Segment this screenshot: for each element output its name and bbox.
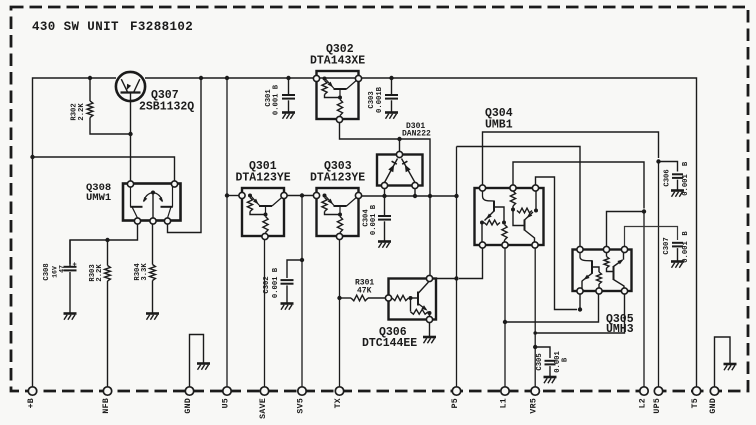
ground (GND right hook) <box>724 364 737 370</box>
svg-text:+B: +B <box>27 398 36 408</box>
wire D301 pin drops <box>385 189 416 197</box>
wire TX line <box>337 240 341 391</box>
wire P5 to Q305 (y=146.5) <box>457 147 581 247</box>
terminal GND <box>709 387 719 414</box>
terminal GND <box>184 387 194 414</box>
svg-text:UMB1: UMB1 <box>485 119 513 132</box>
wire C306 stub <box>659 162 678 172</box>
resistor R302 <box>71 78 131 134</box>
wire bus Q303 to P5 (y=196) <box>362 194 459 198</box>
terminal T5 <box>691 387 701 409</box>
wire SV5 line <box>300 196 304 392</box>
svg-text:430 SW UNIT: 430 SW UNIT <box>32 20 119 34</box>
svg-text:GND: GND <box>709 398 718 414</box>
terminal TX <box>334 387 344 409</box>
dual diode D301 <box>377 122 431 189</box>
svg-text:T5: T5 <box>691 398 700 408</box>
wire D301 anode lead <box>399 139 401 152</box>
wire U5 to Q301 <box>227 195 239 197</box>
svg-text:0.001 B: 0.001 B <box>370 204 378 235</box>
digital transistor Q303 <box>310 160 365 240</box>
terminal VR5 <box>530 387 540 414</box>
wire C305 stub <box>535 347 550 358</box>
svg-text:0.001 B: 0.001 B <box>273 84 281 115</box>
wire L1 to Q305 pin5 (y=322) <box>505 294 599 322</box>
svg-text:B: B <box>562 357 570 362</box>
digital transistor Q301 <box>236 160 291 240</box>
digital transistor Q306 <box>362 275 436 350</box>
svg-text:TX: TX <box>334 398 343 408</box>
svg-text:UMH3: UMH3 <box>606 323 634 336</box>
capacitor C305 <box>536 351 570 377</box>
wire Q306 emitter to ground <box>429 323 431 337</box>
svg-text:16V: 16V <box>52 266 59 278</box>
svg-text:DTA123YE: DTA123YE <box>236 172 291 185</box>
svg-text:L1: L1 <box>500 398 509 408</box>
svg-text:C308: C308 <box>43 263 51 280</box>
ground (C302) <box>281 304 294 310</box>
ground (R304) <box>146 314 159 320</box>
capacitor C303 <box>368 78 398 113</box>
resistor R303 <box>89 240 110 391</box>
wire Q304 pin1 top to UP5 (y=132) <box>483 132 659 185</box>
terminal +B <box>27 387 37 409</box>
wire GND left hook <box>190 335 204 392</box>
wire Q305 pin4 drop <box>579 294 581 310</box>
wire Q304 pin2 top to L2 (y=162) <box>513 162 644 209</box>
wire +B rail (y=78) <box>33 76 697 391</box>
svg-text:3.3K: 3.3K <box>141 263 149 281</box>
svg-text:DTA123YE: DTA123YE <box>310 172 365 185</box>
svg-text:F3288102: F3288102 <box>130 20 193 34</box>
svg-text:U5: U5 <box>222 398 231 408</box>
wire R301 link TX to Q306 <box>340 297 386 299</box>
capacitor C304 <box>363 196 392 242</box>
digital transistor Q302 <box>310 43 365 123</box>
svg-text:DAN222: DAN222 <box>402 130 431 139</box>
wire Q301-Q303 link <box>286 193 314 197</box>
svg-text:2SB1132Q: 2SB1132Q <box>139 101 194 114</box>
wire VR5 line <box>533 248 537 391</box>
wire Q307 base to Q308 pin <box>128 101 132 181</box>
terminal L1 <box>500 387 510 409</box>
svg-text:VR5: VR5 <box>530 398 539 414</box>
svg-text:NFB: NFB <box>102 398 111 414</box>
ground (Q306) <box>423 337 436 343</box>
svg-text:C305: C305 <box>536 353 544 370</box>
svg-text:C303: C303 <box>368 91 376 108</box>
svg-text:B: B <box>682 231 690 236</box>
wire Q305 pin6 to VR5 (y=333) <box>533 294 624 335</box>
terminal SV5 <box>297 387 307 414</box>
terminal UP5 <box>653 387 663 414</box>
wire GND right hook <box>715 337 731 391</box>
resistor R304 <box>134 224 155 314</box>
capacitor C308 <box>43 240 77 314</box>
wire L2 line <box>642 209 646 391</box>
svg-text:0.001 B: 0.001 B <box>272 267 280 298</box>
ground (C301) <box>282 113 295 119</box>
svg-text:47K: 47K <box>357 287 372 296</box>
wire UP5 line <box>656 159 660 391</box>
wire +B branch to Q308 (y=157) <box>30 155 174 181</box>
dual digital transistor Q305 <box>573 246 634 336</box>
ground (C305) <box>544 377 557 383</box>
svg-text:0.001: 0.001 <box>682 174 690 196</box>
terminal U5 <box>222 387 232 409</box>
svg-text:SAVE: SAVE <box>259 398 268 419</box>
svg-text:+: + <box>73 262 77 270</box>
wire U5 line <box>225 78 229 391</box>
ground (C308) <box>64 314 77 320</box>
wire Q308 pin1 bus (y=240) <box>70 224 138 264</box>
wire Q305 pin2 to L2 node (y=211.5) <box>607 212 645 247</box>
wire Q305 pin3 to C307 (y=226.5) <box>625 227 678 247</box>
svg-text:P5: P5 <box>451 398 460 408</box>
ground (C304) <box>378 242 391 248</box>
capacitor C306 <box>664 161 691 196</box>
svg-text:0.001: 0.001 <box>682 241 690 263</box>
wire Q304 pin3 loop to Q305 pin4 <box>536 177 583 312</box>
wire L1 line <box>503 248 507 391</box>
svg-text:2.2K: 2.2K <box>78 103 86 121</box>
svg-text:UP5: UP5 <box>653 398 662 414</box>
svg-text:0.001B: 0.001B <box>376 86 384 113</box>
terminal SAVE <box>259 387 269 419</box>
svg-text:C306: C306 <box>664 169 672 186</box>
svg-text:B: B <box>682 161 690 166</box>
svg-text:DTC144EE: DTC144EE <box>362 337 417 350</box>
terminal NFB <box>102 387 112 414</box>
svg-text:SV5: SV5 <box>297 398 306 414</box>
svg-text:C302: C302 <box>263 276 271 293</box>
transistor Q308 <box>86 181 181 224</box>
capacitor C302 <box>263 267 294 303</box>
svg-text:47: 47 <box>59 265 66 273</box>
ground (C306) <box>671 191 684 197</box>
capacitor C301 <box>265 78 295 115</box>
dual digital transistor Q304 <box>475 107 544 248</box>
title label <box>32 20 193 34</box>
svg-text:L2: L2 <box>639 398 648 408</box>
ground (C307) <box>671 262 684 268</box>
transistor Q307 <box>116 72 194 114</box>
wire C302 stub <box>287 260 302 278</box>
wire Q304 pin4 to P5 node <box>459 248 483 279</box>
ground (GND left hook) <box>197 364 210 370</box>
terminal L2 <box>639 387 649 409</box>
svg-text:2.2K: 2.2K <box>96 264 104 282</box>
capacitor C307 <box>663 231 690 263</box>
ground (C303) <box>385 113 398 119</box>
terminal P5 <box>451 387 461 409</box>
wire P5 line <box>456 147 458 392</box>
wire Q302 base to D301 node <box>340 123 431 276</box>
resistor R301 <box>351 279 374 301</box>
svg-text:GND: GND <box>184 398 193 414</box>
wire SAVE line <box>264 240 266 391</box>
wire Q306 collector to P5 <box>433 276 459 280</box>
svg-text:DTA143XE: DTA143XE <box>310 55 365 68</box>
wire Q308 pin3 loop to rail <box>168 78 202 233</box>
svg-text:C307: C307 <box>663 237 671 254</box>
svg-text:UMW1: UMW1 <box>86 192 111 204</box>
